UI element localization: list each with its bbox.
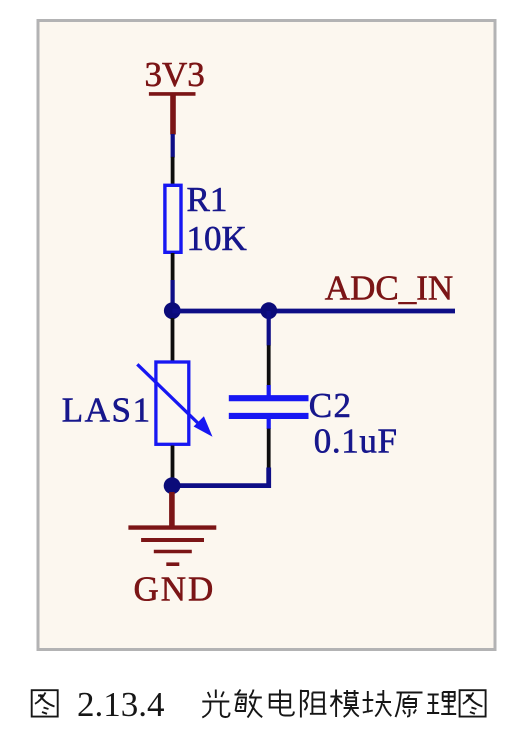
pin C2.1 xyxy=(267,345,271,385)
junction node C xyxy=(164,477,181,494)
ground symbol GND xyxy=(128,492,216,564)
power port 3V3 xyxy=(145,55,205,135)
caption glyph yuan (原) xyxy=(396,693,423,718)
pin LAS1.1 xyxy=(171,318,175,361)
resistor R1 xyxy=(165,185,181,252)
caption glyph min (敏) xyxy=(235,690,263,718)
caption glyph tu1 (图) xyxy=(32,690,58,716)
pin LAS1.2 xyxy=(171,446,175,479)
caption glyph tu2 (图) xyxy=(460,690,486,716)
caption glyph kuai (块) xyxy=(363,690,392,717)
pin R1.2 xyxy=(171,253,175,281)
capacitor C2 xyxy=(229,385,309,429)
svg-text:R1: R1 xyxy=(187,180,228,219)
wire R1 to node A xyxy=(171,280,175,310)
junction node A xyxy=(164,302,181,319)
schematic sheet xyxy=(38,21,495,650)
caption glyph dian (电) xyxy=(270,690,294,716)
svg-text:10K: 10K xyxy=(187,219,247,258)
svg-text:0.1uF: 0.1uF xyxy=(314,422,398,461)
svg-text:LAS1: LAS1 xyxy=(62,390,152,429)
svg-text:3V3: 3V3 xyxy=(145,55,205,94)
junction node B xyxy=(260,302,277,319)
caption glyph li (理) xyxy=(427,692,456,714)
wire node B to C2 xyxy=(267,311,271,346)
photoresistor LAS1 xyxy=(137,362,212,444)
svg-text:GND: GND xyxy=(134,570,216,609)
wire ADC_IN xyxy=(172,309,455,314)
svg-text:ADC_IN: ADC_IN xyxy=(325,268,453,307)
pin C2.2 xyxy=(267,429,271,468)
pin R1.1 xyxy=(171,157,175,185)
caption: 图 2.13.4 光敏电阻模块原理图 (hand-drawn CJK glyphs) xyxy=(32,685,486,724)
wire 3V3 to R1 xyxy=(171,134,175,158)
caption glyph zu (阻) xyxy=(301,690,327,718)
svg-text:C2: C2 xyxy=(309,386,353,425)
caption text 2.13.4 xyxy=(77,685,165,724)
svg-text:2.13.4: 2.13.4 xyxy=(77,685,165,724)
caption glyph mo (模) xyxy=(330,690,358,718)
wire C2 to node C xyxy=(172,468,268,486)
caption glyph guang (光) xyxy=(202,690,229,718)
